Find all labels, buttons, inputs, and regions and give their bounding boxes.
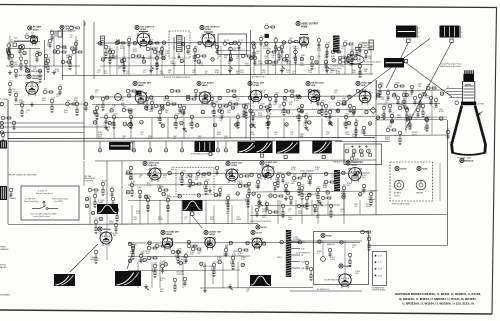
cluster mlc j xyxy=(115,208,119,221)
label 6CG7 xyxy=(256,225,268,229)
part callout r2w1 xyxy=(105,96,109,100)
transformer block T-top-3 xyxy=(384,58,404,68)
svg-text:B PLUS VOLTAGE SOURCE: B PLUS VOLTAGE SOURCE xyxy=(164,76,191,79)
part callout r2y8 xyxy=(235,123,239,127)
filler part 32 xyxy=(44,54,48,67)
part callout r6x3 xyxy=(425,117,429,121)
diamond node r2b xyxy=(370,107,376,113)
wire r2 h104b xyxy=(92,103,250,106)
wire drop r1-21 xyxy=(318,46,320,75)
mixer circle xyxy=(19,44,24,49)
part callout r1x1 xyxy=(120,59,124,63)
cluster r2 ai xyxy=(328,108,332,119)
part callout r3w8 xyxy=(287,172,291,176)
wire drop r3-3 xyxy=(205,200,207,224)
gnd r4 b xyxy=(228,284,232,289)
gnd r2 e xyxy=(328,120,332,125)
bus stub 2 xyxy=(149,141,151,148)
svg-text:6CB6: 6CB6 xyxy=(140,29,146,31)
svg-text:SCHEMATIC: SCHEMATIC xyxy=(0,294,11,297)
cluster r8 o xyxy=(276,172,282,187)
remote switch symbol xyxy=(32,208,40,210)
wire drop r2-6 xyxy=(213,118,215,139)
cluster r2 an xyxy=(362,126,366,135)
wire drop r1-12 xyxy=(229,46,231,75)
label 4BZ6 b xyxy=(133,81,152,87)
svg-text:4BZ6: 4BZ6 xyxy=(138,84,144,87)
gnd r8a xyxy=(208,188,212,193)
label 6U8 r3 xyxy=(260,161,278,167)
CRT funnel right hatch xyxy=(473,106,483,145)
svg-text:150K: 150K xyxy=(352,136,357,138)
cluster r1 f xyxy=(155,54,161,69)
leader from T-top-2 xyxy=(405,42,452,130)
svg-text:470K: 470K xyxy=(281,112,286,114)
resistor tuner box xyxy=(13,43,16,46)
wire drop r1-10 xyxy=(194,46,196,75)
bus stub 6 xyxy=(225,141,227,148)
part callout r1x14 xyxy=(354,57,358,61)
wire drop r2-10 xyxy=(283,118,285,139)
part callout r1w5 xyxy=(181,42,185,46)
trap adj circle 3 xyxy=(237,40,244,51)
gnd r2 b xyxy=(182,126,186,131)
tube V16 xyxy=(162,238,173,250)
tube V17 xyxy=(205,237,216,249)
svg-text:8.2K: 8.2K xyxy=(129,179,134,181)
cluster r2 ae xyxy=(290,92,300,97)
wire drop r1-17 xyxy=(275,46,277,75)
wire drop r1-20 xyxy=(295,46,297,75)
cluster r8 p xyxy=(284,182,290,193)
wire drop r3-6 xyxy=(277,200,279,224)
horiz extra 8 xyxy=(321,196,331,200)
svg-text:HV RECT: HV RECT xyxy=(394,193,401,195)
cluster r2 t xyxy=(190,115,194,128)
svg-text:4.7K: 4.7K xyxy=(317,50,322,52)
label 6CB6 d xyxy=(248,81,265,87)
CRT neck xyxy=(462,82,474,103)
wire bus y224 xyxy=(8,224,258,225)
part callout r1x5 xyxy=(197,60,201,64)
part callout r2x7 xyxy=(218,109,222,112)
horiz extra 9 xyxy=(329,204,333,217)
power box outline xyxy=(314,232,369,285)
wire drop r4-1 xyxy=(151,262,153,288)
wire drop r3b-6 xyxy=(251,205,253,224)
wire pwr h241 xyxy=(291,240,362,242)
wire drop r1-3 xyxy=(123,46,125,75)
svg-text:TO KINE: TO KINE xyxy=(0,99,9,101)
label 12AU7A xyxy=(143,161,160,167)
part callout r3x7 xyxy=(252,192,256,196)
cluster r1 u xyxy=(358,64,362,77)
cluster r1 e xyxy=(149,39,159,44)
part callout tunw0 xyxy=(6,49,10,53)
cluster r2 n xyxy=(129,115,133,128)
cluster r11 e xyxy=(161,264,165,273)
cluster r1 i xyxy=(252,43,257,58)
svg-text:470K: 470K xyxy=(439,111,444,113)
svg-text:1M: 1M xyxy=(163,100,166,102)
svg-text:470K: 470K xyxy=(157,120,162,122)
cluster r6 h xyxy=(382,104,387,119)
cluster r2 aj xyxy=(336,100,346,105)
T-top-3 terminal xyxy=(405,60,408,63)
filler part 26 xyxy=(355,47,359,56)
cluster r2 v xyxy=(220,108,224,119)
cluster r1 j xyxy=(259,35,263,46)
sound takeoff winding xyxy=(333,36,340,53)
filler part 25 xyxy=(347,54,351,63)
pin ladder xyxy=(291,241,300,243)
wire AGC line 1 xyxy=(0,122,84,124)
cluster r8 w xyxy=(362,184,366,193)
wire tuner v30 xyxy=(29,48,31,75)
svg-text:KEYED AGC: KEYED AGC xyxy=(311,81,324,84)
svg-text:100K: 100K xyxy=(262,211,267,213)
wire B+ bus mid b xyxy=(8,140,342,142)
cluster r6 i xyxy=(390,112,394,123)
cluster le c xyxy=(1,133,5,146)
svg-text:120K: 120K xyxy=(258,115,263,117)
svg-text:6.8K: 6.8K xyxy=(230,263,235,265)
svg-text:40-40: 40-40 xyxy=(330,259,336,261)
svg-text:6CB6: 6CB6 xyxy=(205,29,211,31)
wire r6 v432 xyxy=(431,90,433,135)
label 6AQ5 xyxy=(204,230,222,236)
wire drop r1-11 xyxy=(220,46,222,75)
T-top-1 terminal xyxy=(407,39,410,42)
cap cluster tuner 4 xyxy=(25,33,35,38)
ground arrow 12 xyxy=(146,287,149,290)
HV socket 2 xyxy=(416,180,426,190)
cluster r11 d xyxy=(153,262,157,277)
cluster r2 r xyxy=(174,113,180,128)
trap adjust box xyxy=(218,34,247,55)
part callout r6w2 xyxy=(405,93,409,97)
black block audio out 2 xyxy=(115,271,141,286)
cluster pwr e xyxy=(328,248,332,257)
cluster r11 k xyxy=(231,254,237,269)
svg-text:FUSE: FUSE xyxy=(326,236,332,238)
part callout r6x2 xyxy=(407,117,411,121)
cluster mlc c xyxy=(88,188,98,192)
cluster pwr a xyxy=(361,230,371,234)
terminal circle agc2 xyxy=(0,125,3,128)
cluster tun g xyxy=(38,69,42,82)
cluster r11 g xyxy=(184,252,188,263)
svg-text:1M: 1M xyxy=(94,192,97,194)
gnd r2 xyxy=(30,102,34,107)
part callout r2x5 xyxy=(181,110,185,113)
gnd r2 d xyxy=(304,125,308,130)
part callout r2w14 xyxy=(331,96,335,99)
wire r1 h58 xyxy=(104,57,165,59)
gnd r11 xyxy=(203,288,207,293)
transformer block T-top-2 xyxy=(440,26,460,38)
wire drop r2-5 xyxy=(183,118,185,139)
cluster pwr c xyxy=(305,261,309,270)
part callout r4x6 xyxy=(241,263,245,267)
part callout r3x9 xyxy=(286,191,290,194)
gnd r3 b xyxy=(258,200,262,205)
cluster tun f xyxy=(14,69,18,78)
svg-text:HEATERS: HEATERS xyxy=(327,243,336,246)
block B5 yoke R xyxy=(276,141,299,153)
part callout r1x4 xyxy=(180,59,184,63)
part callout r1w2 xyxy=(133,42,137,46)
svg-text:150K: 150K xyxy=(407,127,412,129)
cluster r2 z xyxy=(251,110,255,121)
part callout tunw2 xyxy=(38,52,42,56)
svg-text:470K: 470K xyxy=(111,125,116,127)
cluster r6 j xyxy=(398,104,408,109)
filler part 29 xyxy=(18,45,22,54)
filler part 62 xyxy=(324,104,328,117)
part mlc e xyxy=(85,197,89,201)
svg-text:1ST AUDIO: 1ST AUDIO xyxy=(202,81,214,84)
svg-text:6CG7: 6CG7 xyxy=(256,233,262,235)
part callout r1x12 xyxy=(315,61,319,65)
filler part 86 xyxy=(247,182,251,195)
wire link v122 xyxy=(121,161,123,224)
svg-text:100K: 100K xyxy=(258,63,263,65)
cluster r8 n xyxy=(256,178,263,189)
transformer block T-top-1 xyxy=(396,26,417,38)
wire tuner v76 xyxy=(75,36,77,75)
cluster r2 m xyxy=(122,106,132,111)
part callout r2w4 xyxy=(165,96,169,100)
filler part 1 xyxy=(111,50,115,59)
IF transformer T1 winding xyxy=(174,36,185,52)
wire r3 h200 xyxy=(128,199,250,202)
cluster tun i xyxy=(48,39,52,48)
bus stub 4 xyxy=(181,141,183,148)
part callout r4w11 xyxy=(340,241,344,245)
leader vert block xyxy=(192,216,202,229)
wire drop r2-13 xyxy=(337,118,339,139)
wire drop r1-0 xyxy=(103,46,105,75)
ground arrow 4 xyxy=(106,128,109,131)
part callout r2x16 xyxy=(365,110,369,114)
cluster le b xyxy=(12,121,16,130)
wire r4 h288 xyxy=(200,287,313,290)
part callout r4w6 xyxy=(246,241,250,245)
cluster r11 a xyxy=(131,244,137,259)
svg-text:G2: G2 xyxy=(447,87,449,89)
HV rect label 2 xyxy=(417,166,428,170)
filler part 49 xyxy=(218,104,228,108)
wire drop r3c-2 xyxy=(295,200,297,215)
svg-text:1M: 1M xyxy=(195,179,198,181)
svg-text:41.25: 41.25 xyxy=(224,40,230,42)
svg-text:12AU7A: 12AU7A xyxy=(148,164,157,167)
wire drop r3c-0 xyxy=(265,200,267,215)
cluster r2 s xyxy=(182,104,186,115)
svg-text:6AX4: 6AX4 xyxy=(422,168,428,171)
svg-text:2.2K: 2.2K xyxy=(94,115,99,117)
row1 extra 4 xyxy=(338,56,348,60)
yoke plug box xyxy=(344,144,382,165)
part callout r3w6 xyxy=(250,173,254,176)
wire tuner v10 xyxy=(9,36,11,66)
svg-text:AC INTERLOCK: AC INTERLOCK xyxy=(317,288,330,291)
part callout r4x2 xyxy=(164,263,168,267)
svg-text:4.7K: 4.7K xyxy=(315,169,320,171)
svg-text:3.9K: 3.9K xyxy=(156,54,161,56)
filler part 68 xyxy=(388,104,392,113)
gnd r3 a xyxy=(188,206,192,211)
cluster r2 x xyxy=(236,113,240,128)
cluster r6 p xyxy=(398,131,402,144)
trap adj circle 2 xyxy=(229,47,233,60)
cluster r11 j xyxy=(224,246,228,257)
tube V7 xyxy=(135,92,147,106)
horiz extra 6 xyxy=(305,196,309,209)
part callout r2w13 xyxy=(315,95,319,99)
label thermistor xyxy=(321,233,332,237)
label 6U8 e xyxy=(306,81,325,87)
contrast pot xyxy=(358,41,371,53)
filler part 61 xyxy=(316,97,320,106)
tube V4 2nd IF 6CB6 xyxy=(202,34,215,49)
wire r6 h1 xyxy=(377,89,446,92)
part callout r2w5 xyxy=(187,95,191,98)
cluster r6 e xyxy=(410,85,414,94)
capacitor C2 tuner xyxy=(7,49,11,60)
wire drop r1-26 xyxy=(370,46,372,75)
cluster r1 k xyxy=(266,48,276,53)
wire drop r1-22 xyxy=(326,46,328,75)
part callout r2x13 xyxy=(318,110,322,113)
part callout r2y6 xyxy=(196,124,200,127)
wire link v84b xyxy=(83,161,85,186)
svg-text:4: 4 xyxy=(419,28,420,30)
tuner cap 5 xyxy=(50,29,54,40)
filler part 45 xyxy=(178,104,182,113)
cluster r2 ah xyxy=(320,100,325,115)
cluster r6 c xyxy=(394,82,404,87)
svg-text:4 2.2: 4 2.2 xyxy=(378,275,382,277)
CRT grid lines xyxy=(463,85,473,87)
wire drop r1-23 xyxy=(344,46,346,75)
wire drop r4-5 xyxy=(222,262,224,288)
svg-text:470K: 470K xyxy=(113,113,118,115)
wire drop r1-4 xyxy=(128,46,130,75)
cluster r2 c xyxy=(20,101,25,116)
wire signal path IF row1 xyxy=(96,42,300,45)
svg-text:1 4.7: 1 4.7 xyxy=(378,256,382,258)
svg-text:1M: 1M xyxy=(198,138,201,140)
svg-text:1M: 1M xyxy=(165,112,168,114)
svg-text:1M: 1M xyxy=(293,48,296,50)
svg-text:820K: 820K xyxy=(158,219,163,221)
cluster r8 k xyxy=(226,194,231,209)
svg-text:150K: 150K xyxy=(409,114,414,116)
tuner part c xyxy=(56,48,66,53)
part callout r3w5 xyxy=(229,172,233,176)
svg-text:1M: 1M xyxy=(167,100,170,102)
part callout r3x1 xyxy=(144,195,148,199)
wire drop r1-18 xyxy=(281,46,283,75)
yoke terminal 2 xyxy=(284,156,287,159)
wire r1 h50 xyxy=(216,49,250,51)
part callout r3x0 xyxy=(126,191,130,194)
svg-text:3.9K: 3.9K xyxy=(155,65,160,67)
horiz extra 3 xyxy=(281,204,285,217)
horiz extra 7 xyxy=(313,204,317,213)
cluster r1 h xyxy=(193,46,198,61)
part callout r3w3 xyxy=(189,173,193,177)
svg-text:1M: 1M xyxy=(141,253,144,255)
filler part 10 xyxy=(215,45,219,54)
tube V12 xyxy=(149,168,161,182)
cluster mlc b xyxy=(110,186,114,197)
wire h245 xyxy=(369,245,448,247)
wire drop r3b-4 xyxy=(213,205,215,224)
cluster r2 af xyxy=(297,106,303,121)
wire drop r2-12 xyxy=(321,118,323,139)
svg-text:1.8M: 1.8M xyxy=(245,201,250,203)
part callout r6x1 xyxy=(390,120,394,124)
cluster r2 ag xyxy=(304,113,308,124)
svg-text:1M: 1M xyxy=(225,247,228,249)
svg-text:470K: 470K xyxy=(130,253,135,255)
cluster r11 l xyxy=(238,248,248,252)
page right border xyxy=(492,8,497,315)
part callout r1x8 xyxy=(250,56,254,60)
part callout r3x8 xyxy=(269,194,273,198)
wire AGC line 2 xyxy=(0,126,110,128)
part callout r1w3 xyxy=(148,41,152,45)
gnd r1 d xyxy=(325,68,329,73)
label top right corner xyxy=(460,158,474,162)
svg-text:3.3M: 3.3M xyxy=(265,125,270,127)
wire vert x447 xyxy=(447,120,449,246)
svg-text:1M: 1M xyxy=(197,170,200,172)
leader from T-top-3 xyxy=(406,63,452,97)
wire bus y215 xyxy=(250,215,447,216)
label 6CG7 pwr xyxy=(251,230,263,234)
cluster crt a xyxy=(446,128,450,139)
svg-text:220K: 220K xyxy=(213,101,218,103)
svg-text:TRAP: TRAP xyxy=(98,201,104,204)
page top border xyxy=(0,5,497,8)
wire vert x250 xyxy=(250,30,252,140)
wire r4 h256 xyxy=(128,255,250,258)
cluster r2 f xyxy=(58,84,62,95)
wire vert x8 xyxy=(7,100,9,224)
yoke plug pins xyxy=(345,149,349,153)
cluster r8 b xyxy=(188,177,194,188)
CRT leads xyxy=(446,88,462,90)
filler part 37 xyxy=(101,97,105,110)
wire left drop xyxy=(7,100,9,138)
part callout r2w9 xyxy=(248,96,252,100)
tuner part d xyxy=(68,54,74,69)
filler part 85 xyxy=(239,174,249,178)
part callout r2x2 xyxy=(129,110,133,114)
wire r6 h117 xyxy=(377,116,447,119)
cluster r1 a xyxy=(108,48,113,63)
wire drop r3c-3 xyxy=(311,200,313,215)
wire drop r1-16 xyxy=(267,46,269,75)
dashed IF transformer box 1 xyxy=(169,31,190,58)
part callout r2x15 xyxy=(352,110,356,114)
cluster r11 b xyxy=(139,252,143,263)
part callout r2x4 xyxy=(161,107,165,111)
